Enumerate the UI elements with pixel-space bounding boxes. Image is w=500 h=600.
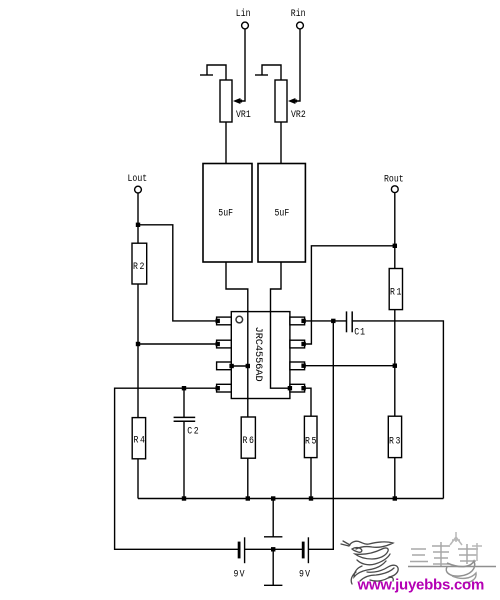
ground bar bottom xyxy=(264,584,282,586)
junction C2 top xyxy=(182,386,186,390)
wire internal pin 3 xyxy=(231,365,248,367)
svg-text:5uF: 5uF xyxy=(275,207,290,219)
wire C2 branch xyxy=(183,388,185,417)
wire C3 5uF bottom to pin 3 and R6 xyxy=(226,262,248,499)
svg-text:C2: C2 xyxy=(187,425,200,437)
wiper arrow VR1 xyxy=(233,98,242,104)
svg-text:R2: R2 xyxy=(133,260,146,272)
svg-text:www.juyebbs.com: www.juyebbs.com xyxy=(357,577,485,594)
op-amp U1 pin 5 xyxy=(290,384,305,392)
wire Lout node to pin 1 xyxy=(138,225,218,321)
resistor R6 body xyxy=(241,417,255,458)
svg-text:Lin: Lin xyxy=(236,7,251,19)
junction pin 6 node xyxy=(393,364,397,368)
svg-text:VR2: VR2 xyxy=(291,108,306,120)
wire VR2 bottom to C4 5uF xyxy=(280,122,282,164)
junction R3 bus xyxy=(393,496,397,500)
wiper arrow VR2 xyxy=(288,98,297,104)
terminal Lout xyxy=(135,186,142,193)
junction pin 2 left xyxy=(216,342,220,346)
wire R5 bottom to bus xyxy=(310,458,312,499)
wire VR1 top to ground xyxy=(207,65,226,80)
op-amp U1 pin 8 xyxy=(290,317,305,325)
junction battery center tap xyxy=(271,547,275,551)
svg-text:R1: R1 xyxy=(390,286,403,298)
junction pin 5 inner xyxy=(288,386,292,390)
svg-text:9V: 9V xyxy=(234,568,246,580)
terminal Rout xyxy=(391,186,398,193)
wire VR1 bottom to C3 5uF xyxy=(225,122,227,164)
op-amp U1 pin 6 xyxy=(290,362,305,370)
battery B2 9V plates xyxy=(302,537,309,563)
svg-text:Lout: Lout xyxy=(128,172,148,184)
junction Lout node xyxy=(136,223,140,227)
capacitor C3 5uF body xyxy=(203,164,252,263)
wire ground bus xyxy=(138,498,443,500)
wire C2 bottom to bus xyxy=(183,421,185,498)
op-amp U1 pin 7 xyxy=(290,340,305,348)
wire center tap to bottom ground xyxy=(272,549,274,585)
svg-text:R6: R6 xyxy=(243,434,256,446)
watermark dragon logo xyxy=(341,541,398,584)
watermark chinese characters xyxy=(408,532,496,583)
junction pin 5 right xyxy=(301,386,305,390)
resistor R5 body xyxy=(304,416,317,457)
wire Lout node vertical through R2 R4 to bus xyxy=(137,193,139,498)
junction pin 2 node xyxy=(136,342,140,346)
ground bar below bus xyxy=(264,536,282,538)
wire pin 2 to R2 bottom node xyxy=(138,343,218,345)
op-amp U1 pin 2 xyxy=(217,340,232,348)
resistor R4 body xyxy=(132,418,145,459)
svg-text:C1: C1 xyxy=(354,326,366,338)
op-amp U1 JRC4556AD body xyxy=(231,312,290,399)
wire VR2 top to ground xyxy=(262,65,281,80)
junction pin 6 right xyxy=(301,364,305,368)
terminal Rin xyxy=(297,22,304,29)
svg-text:9V: 9V xyxy=(299,568,311,580)
wire bus to center ground xyxy=(272,499,274,537)
junction pin 4 left xyxy=(216,386,220,390)
op-amp U1 pin 3 xyxy=(217,362,232,370)
terminal Lin xyxy=(242,22,249,29)
wire C4 5uF bottom to pin 5 xyxy=(271,262,290,388)
svg-text:R5: R5 xyxy=(305,435,318,447)
svg-text:R4: R4 xyxy=(134,434,147,446)
svg-text:Rin: Rin xyxy=(291,7,306,19)
potentiometer VR2 body xyxy=(275,80,287,122)
junction pin 1 left xyxy=(216,319,220,323)
junction pin 7 right xyxy=(301,342,305,346)
svg-text:5uF: 5uF xyxy=(218,207,233,219)
svg-text:JRC4556AD: JRC4556AD xyxy=(252,327,264,382)
op-amp U1 pin 1 marker xyxy=(236,316,243,323)
junction Rout node xyxy=(393,244,397,248)
op-amp U1 pin 1 xyxy=(217,317,232,325)
battery B1 9V plates xyxy=(238,537,245,563)
resistor R2 body xyxy=(132,243,147,284)
junction R6 bus xyxy=(246,496,250,500)
watermark url www.juyebbs.com xyxy=(357,577,485,594)
resistor R3 body xyxy=(388,416,401,457)
svg-text:Rout: Rout xyxy=(384,173,404,185)
ground bar at VR2 xyxy=(255,74,268,76)
op-amp U1 pin 4 xyxy=(217,384,232,392)
wire pin 6 to R1 R3 node xyxy=(304,365,395,367)
junction R5 bus xyxy=(309,496,313,500)
wire Rin vertical to VR2 wiper xyxy=(294,29,300,101)
wire Lin vertical to VR1 wiper xyxy=(239,29,245,101)
wire pin 7 to Rout node xyxy=(304,246,395,344)
wire battery center tap xyxy=(245,548,302,550)
junction pin 3 inner right xyxy=(246,364,250,368)
wire C1 right to ground bus corner xyxy=(353,321,444,499)
svg-text:R3: R3 xyxy=(389,435,402,447)
svg-text:VR1: VR1 xyxy=(236,108,251,120)
capacitor C1 plates xyxy=(347,311,353,332)
wire pin 8 to C1 xyxy=(304,320,346,322)
resistor R1 body xyxy=(389,269,402,310)
capacitor C4 5uF body xyxy=(258,164,305,263)
junction C1 V+ node xyxy=(331,319,335,323)
junction pin 3 inner left xyxy=(229,364,233,368)
junction pin 8 right xyxy=(301,319,305,323)
junction center ground bus xyxy=(271,496,275,500)
wire V+ rail C1 node to right battery xyxy=(309,321,333,549)
ground bar at VR1 xyxy=(200,74,213,76)
potentiometer VR1 body xyxy=(220,80,232,122)
wire V- rail pin 4 to left battery xyxy=(115,388,238,549)
junction C2 bus xyxy=(182,496,186,500)
wire pin 5 to R5 xyxy=(304,388,311,416)
capacitor C2 plates xyxy=(174,417,196,421)
wire Rout vertical through R1 R3 to bus xyxy=(394,192,396,498)
